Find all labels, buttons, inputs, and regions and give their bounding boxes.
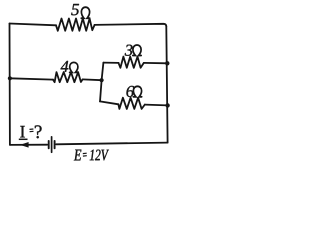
wire middle branch left — [10, 78, 53, 79]
label I=? — [19, 125, 42, 139]
node junction left rail — [8, 76, 12, 80]
wire bottom right segment — [56, 143, 167, 145]
current arrow — [20, 142, 29, 148]
node junction middle — [100, 78, 104, 82]
wire 6ohm branch left — [100, 101, 118, 104]
wire 3ohm branch left — [103, 62, 118, 64]
resistor R3 3ohm zigzag — [119, 57, 144, 68]
wire middle branch right to node — [83, 78, 102, 81]
label 3 ohm — [125, 45, 141, 56]
resistor R1 5ohm zigzag — [56, 19, 95, 31]
node junction right bottom — [165, 103, 169, 107]
wire top-left segment — [10, 24, 57, 26]
label 5 ohm — [71, 4, 89, 18]
resistor R4 6ohm zigzag — [118, 98, 144, 109]
battery B1 plate center tall — [51, 137, 53, 153]
node junction right top — [165, 61, 169, 65]
wire top-right segment — [95, 24, 167, 27]
wire bottom left segment — [10, 144, 47, 146]
battery B1 plate left short — [48, 141, 50, 148]
wire parallel left bar — [100, 63, 103, 102]
wire right rail — [166, 27, 167, 143]
label 4 ohm — [61, 61, 78, 72]
wire 6ohm branch right — [145, 104, 168, 107]
battery B1 plate right short — [54, 141, 56, 148]
label 6 ohm — [126, 86, 141, 97]
wire left rail — [9, 24, 11, 145]
resistor R2 4ohm zigzag — [53, 72, 83, 82]
label E=12V — [74, 150, 109, 161]
wire 3ohm branch right — [144, 62, 168, 64]
